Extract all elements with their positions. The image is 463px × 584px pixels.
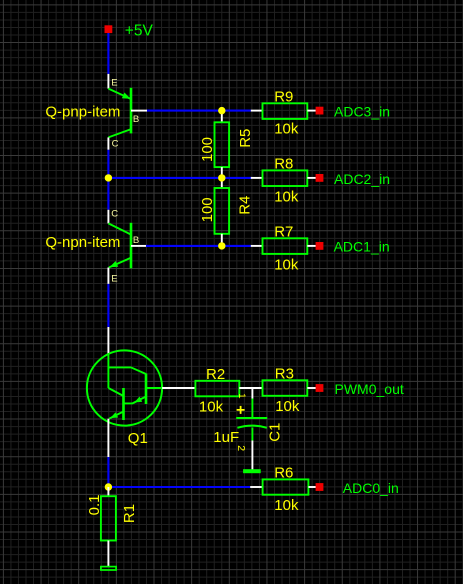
resistor R3 body xyxy=(263,380,308,396)
svg-text:ADC1_in: ADC1_in xyxy=(334,239,390,255)
svg-text:+5V: +5V xyxy=(125,23,154,40)
svg-text:C1: C1 xyxy=(266,423,283,442)
junction dot row2 left xyxy=(105,174,112,181)
transistor Q-npn base pin xyxy=(131,245,146,247)
resistor R8 right pin xyxy=(307,177,316,179)
capacitor C1 bottom plate (curved) xyxy=(237,426,266,428)
wire npn base to R7 row xyxy=(146,245,251,247)
svg-text:Q-pnp-item: Q-pnp-item xyxy=(45,103,120,120)
svg-text:Q-npn-item: Q-npn-item xyxy=(45,234,120,251)
transistor Q1 emitter pin (bottom) xyxy=(107,419,109,457)
Q1 internal collector rail xyxy=(107,354,109,389)
Q1 internal collector branch T1 xyxy=(108,367,146,374)
svg-text:ADC3_in: ADC3_in xyxy=(334,103,390,119)
Q1 T2 emitter line xyxy=(109,412,124,419)
transistor Q-pnp base pin xyxy=(131,110,147,112)
Q1 base lead inside xyxy=(146,387,162,389)
resistor R1 body xyxy=(101,496,116,540)
resistor R4 bottom pin xyxy=(221,234,223,246)
svg-text:10k: 10k xyxy=(274,189,299,206)
Q1 T2 base bar xyxy=(122,388,125,420)
svg-text:R9: R9 xyxy=(274,88,293,105)
capacitor C1 top stub xyxy=(251,399,253,419)
svg-text:E: E xyxy=(111,78,117,89)
junction dot bottom xyxy=(105,483,112,490)
resistor R2 body xyxy=(195,381,239,397)
svg-text:B: B xyxy=(133,114,139,125)
resistor R7 right pin xyxy=(307,245,316,247)
junction dot row2 divider xyxy=(218,174,225,181)
Q1 T1 emitter arrowhead xyxy=(133,397,142,406)
capacitor C1 bottom stub xyxy=(251,428,253,441)
wire pnp base to R9 row xyxy=(147,110,251,112)
resistor R8 body xyxy=(263,170,308,186)
svg-text:PWM0_out: PWM0_out xyxy=(335,381,404,397)
svg-text:R1: R1 xyxy=(121,504,138,523)
capacitor C1 pin 2 xyxy=(251,441,253,471)
transistor Q-npn emitter pin xyxy=(107,268,109,284)
ground bar below C1 xyxy=(244,470,261,473)
unconnected pin cue (ADC2) xyxy=(316,174,324,182)
svg-text:R4: R4 xyxy=(236,196,253,215)
resistor R4 top pin xyxy=(221,178,223,188)
transistor Q-pnp emitter pin xyxy=(107,74,109,89)
resistor R5 bottom pin xyxy=(221,167,223,178)
svg-text:10k: 10k xyxy=(274,120,299,137)
transistor Q-pnp emitter arrow line xyxy=(108,89,131,99)
transistor Q-npn base bar xyxy=(130,223,133,268)
transistor Q1 collector pin (top) xyxy=(107,327,109,354)
transistor Q1 base pin (right) xyxy=(162,387,195,389)
svg-text:B: B xyxy=(133,235,139,246)
resistor R8 left pin xyxy=(251,177,263,179)
junction dot row1 xyxy=(218,107,225,114)
Q1 T1 emitter line xyxy=(124,397,147,404)
svg-text:10k: 10k xyxy=(199,398,224,415)
transistor Q-pnp base bar xyxy=(130,88,133,134)
svg-text:R5: R5 xyxy=(237,129,254,148)
svg-text:Q1: Q1 xyxy=(128,430,148,447)
Q1 T1 base bar xyxy=(145,374,148,405)
svg-text:R6: R6 xyxy=(274,465,293,482)
svg-text:R8: R8 xyxy=(274,156,293,173)
unconnected pin cue (PWM0) xyxy=(316,384,324,392)
unconnected pin cue (ADC0) xyxy=(316,483,324,491)
resistor R5 body xyxy=(215,122,230,167)
resistor R5 top pin xyxy=(221,111,223,123)
resistor R7 body xyxy=(263,238,308,254)
transistor Q-npn emitter arrowhead xyxy=(108,261,118,270)
resistor R7 left pin xyxy=(251,245,263,247)
wire row2 to R8 xyxy=(108,177,252,179)
wire +5V to Q-pnp emitter xyxy=(107,33,109,74)
svg-text:C: C xyxy=(111,209,118,220)
transistor Q-pnp collector line xyxy=(108,129,131,137)
resistor R6 left pin xyxy=(250,486,262,488)
unconnected pin cue (ADC3) xyxy=(316,107,324,115)
svg-text:R2: R2 xyxy=(206,366,225,383)
svg-text:R3: R3 xyxy=(275,365,294,382)
Q1 T2 collector line xyxy=(108,388,123,396)
svg-text:10k: 10k xyxy=(275,398,300,415)
transistor Q-pnp collector pin xyxy=(107,137,109,149)
Q1 T2 emitter arrowhead xyxy=(109,412,118,420)
svg-text:1uF: 1uF xyxy=(213,429,239,446)
transistor Q-npn collector pin xyxy=(107,210,109,224)
resistor R3 right pin xyxy=(307,387,316,389)
resistor R1 bottom pin xyxy=(107,541,109,567)
resistor R9 right pin xyxy=(307,110,316,112)
svg-text:R7: R7 xyxy=(274,223,293,240)
junction dot row3 xyxy=(218,242,225,249)
svg-text:10k: 10k xyxy=(274,497,299,514)
capacitor C1 plus sign xyxy=(237,406,245,414)
wire npn emitter to Q1 collector xyxy=(107,284,109,327)
svg-text:100: 100 xyxy=(199,197,216,222)
resistor R6 right pin xyxy=(308,486,316,488)
resistor R9 body xyxy=(263,103,308,119)
svg-text:2: 2 xyxy=(235,445,247,451)
transistor Q-npn collector line xyxy=(108,223,131,234)
power symbol +5V pin cue (red square) xyxy=(105,25,113,33)
ground symbol bottom xyxy=(101,567,116,570)
svg-text:1: 1 xyxy=(236,393,247,398)
svg-text:ADC0_in: ADC0_in xyxy=(343,480,399,496)
wire bottom row to R6 xyxy=(108,486,250,488)
svg-text:0.1: 0.1 xyxy=(86,495,103,516)
svg-text:C: C xyxy=(112,138,119,149)
capacitor C1 pin 1 xyxy=(251,388,253,399)
svg-text:E: E xyxy=(111,273,117,284)
transistor Q-npn emitter line xyxy=(109,258,131,268)
svg-text:ADC2_in: ADC2_in xyxy=(334,171,390,187)
transistor Q1 body circle xyxy=(87,350,162,425)
resistor R9 left pin xyxy=(251,110,263,112)
svg-text:10k: 10k xyxy=(274,257,299,274)
capacitor C1 top plate xyxy=(236,417,267,419)
resistor R6 body xyxy=(263,479,309,494)
wire left column pnp-C to npn-C xyxy=(107,150,109,210)
unconnected pin cue (ADC1) xyxy=(316,242,324,250)
resistor R1 top pin xyxy=(107,487,109,496)
wire Q1 emitter down xyxy=(107,457,109,487)
resistor R4 body xyxy=(215,188,230,234)
resistor R2/R3 pins and C1 node xyxy=(239,387,262,389)
svg-text:100: 100 xyxy=(199,137,216,162)
transistor Q-pnp emitter arrowhead xyxy=(122,93,132,102)
